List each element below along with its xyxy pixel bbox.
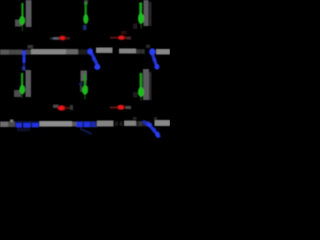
oxygen O4 with carbonyl stub (row4 right)	[110, 105, 131, 111]
carbon dark section row4 f	[133, 117, 157, 127]
molecule unit mid-right: chlorine bond Cl6	[138, 73, 144, 101]
carbon chain row4 segment c	[72, 122, 77, 127]
molecule unit top-middle: chlorine bond Cl2	[83, 2, 88, 24]
carbon block row2 f	[96, 48, 113, 54]
carbon faint marks row4 gap	[115, 122, 123, 127]
molecule unit top-right: phosphorus dot dim	[133, 24, 138, 30]
carbon chain row2 segment c (bright)	[31, 49, 66, 55]
carbon chain row2 segment b (dark near N)	[26, 50, 32, 55]
nitrogen bond N2 diagonal (row2 middle)	[88, 48, 101, 70]
molecule unit mid-middle: chlorine bond Cl5	[82, 74, 88, 100]
molecule unit mid-left: nitrogen tip	[22, 67, 26, 71]
carbon block row2 g	[119, 49, 136, 54]
molecule unit mid-middle: nitrogen dot dim	[79, 83, 82, 86]
carbon chain row2 segment d	[66, 49, 78, 55]
nitrogen tail streaks below row4 middle	[80, 129, 92, 135]
nitrogen bond N4 diagonal (row4 right)	[142, 120, 160, 137]
carbon chain row4 segment a	[0, 120, 15, 128]
molecule unit mid-right: carbon bond vertical	[143, 69, 152, 100]
molecule unit top-left: carbon bond vertical	[26, 0, 32, 27]
carbon block row4 e	[124, 121, 136, 127]
nitrogen bond N1 vertical (row2 left)	[22, 50, 25, 70]
molecule unit mid-middle: carbon bond vertical	[80, 71, 88, 93]
carbon dark section row2 h	[136, 45, 150, 55]
molecule unit top-middle: carbon tip	[84, 0, 88, 5]
molecule unit mid-left: carbon block	[14, 90, 21, 97]
oxygen O3 with carbonyl stub (row4 middle)	[53, 105, 73, 112]
molecule unit top-right: carbon bond vertical	[144, 0, 152, 26]
carbon block row4 d	[97, 121, 114, 127]
molecule unit mid-right: phosphorus dot dim	[133, 92, 138, 98]
carbon marks above chain row2	[28, 45, 34, 49]
molecule unit top-middle: nitrogen atom dim	[83, 25, 87, 30]
nitrogen chain row4 middle (dashes)	[77, 121, 98, 127]
molecule unit top-left: carbon block	[15, 20, 22, 27]
nitrogen chain row4 left (dashes)	[15, 121, 40, 132]
molecule unit mid-left: carbon bond vertical	[26, 70, 32, 97]
molecule unit mid-left: chlorine bond Cl4	[19, 73, 25, 98]
carbon chain row4 segment g (right)	[155, 120, 171, 126]
carbon chain row2 segment a	[0, 50, 23, 55]
molecule unit top-left: chlorine bond Cl1	[19, 3, 25, 31]
oxygen O2 with carbonyl stub (row2 right)	[110, 31, 131, 40]
oxygen O1 with carbonyl stub (row2 middle)	[50, 35, 70, 40]
carbon chain row2 segment e (dim)	[78, 50, 88, 55]
carbon chain row2 segment i (right)	[156, 49, 170, 55]
nitrogen bond N3 diagonal (row2 right)	[149, 48, 159, 69]
molecule unit top-right: chlorine bond Cl3	[138, 3, 144, 29]
carbon chain row4 segment b (bright)	[40, 121, 73, 127]
